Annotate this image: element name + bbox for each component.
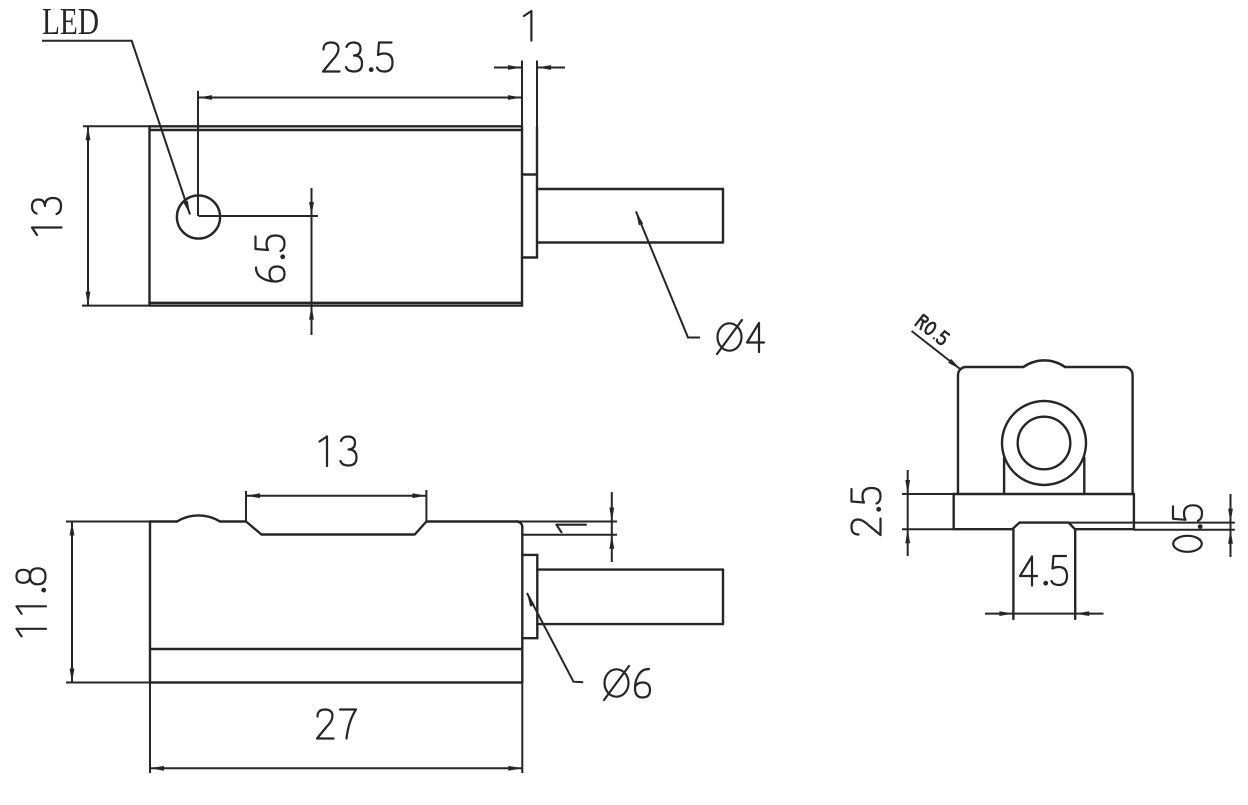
dim 0.5 text (rotated) [1173, 505, 1203, 552]
dim 23.5 text [323, 43, 393, 73]
dim 1 (side view, step) [426, 492, 617, 562]
dim 27 text [317, 710, 356, 739]
stem sides (end view) [1013, 529, 1075, 619]
dim 1 text (top) [524, 11, 532, 41]
Ø4 text [717, 320, 764, 354]
dim 23.5 [198, 91, 522, 216]
dim 6.5 text (rotated) [256, 236, 286, 282]
dim 27 [150, 683, 522, 774]
side view body outline [150, 515, 522, 682]
dim 13 (side view, recess) [246, 490, 426, 522]
dim 13 text (rotated) [32, 198, 62, 235]
dim 2.5 [902, 470, 954, 556]
cable (top view) [537, 189, 723, 243]
cable boss (side view) [522, 555, 537, 638]
leader Ø6 [527, 593, 583, 682]
dim 11.8 [66, 522, 150, 683]
R0.5 text (rotated) [915, 315, 949, 346]
end view body outline [958, 360, 1133, 494]
leader Ø4 [636, 212, 700, 338]
dim 0.5 [1069, 494, 1235, 557]
LED hole circle [177, 195, 220, 238]
dim 4.5 [985, 611, 1104, 616]
cable hole circles (end view) [1002, 401, 1086, 485]
stem chamfered top (end view) [1012, 523, 1075, 530]
top view body outline [150, 126, 523, 305]
dim 1 text (side view, rotated) [556, 525, 586, 533]
LED label leader [42, 41, 190, 215]
cable boss (top view) [522, 127, 537, 258]
LED label text [42, 1, 99, 43]
leader R0.5 [912, 331, 961, 369]
Ø6 text [604, 666, 650, 700]
dim 13 text (side view) [320, 437, 357, 467]
dim 2.5 text (rotated) [852, 488, 882, 535]
svg-text:LED: LED [42, 1, 99, 43]
dim 1 (top view flange) [494, 61, 565, 128]
flange (end view) [954, 494, 1134, 529]
dim 13 (top view, left) [82, 126, 150, 305]
dim 4.5 text [1020, 556, 1067, 586]
cable (side view) [537, 570, 723, 625]
dim 11.8 text (rotated) [17, 568, 47, 636]
dim 6.5 [199, 188, 319, 335]
boss shoulders (end view) [1004, 458, 1084, 494]
